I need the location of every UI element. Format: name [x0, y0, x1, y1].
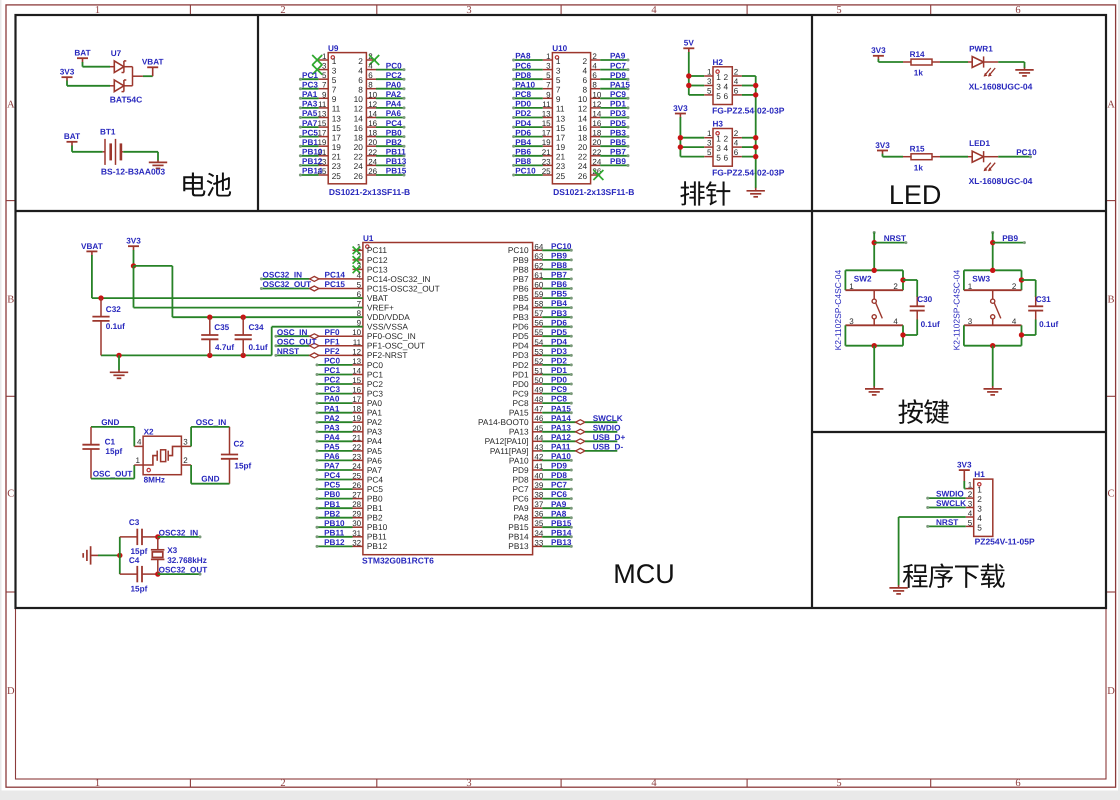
pin 1 U10 — [543, 59, 553, 61]
svg-text:DS1021-2x13SF11-B: DS1021-2x13SF11-B — [329, 187, 410, 197]
svg-text:B: B — [1107, 294, 1114, 305]
svg-text:11: 11 — [556, 104, 565, 114]
svg-text:PB10: PB10 — [302, 148, 323, 157]
pin 14 U9 — [366, 117, 376, 119]
svg-text:BAT: BAT — [64, 132, 80, 141]
pin 13 U10 — [543, 117, 553, 119]
wire net PA7 — [317, 469, 353, 471]
U1 pin 38 — [533, 498, 543, 500]
svg-text:5: 5 — [836, 778, 841, 789]
wire net PA15 — [542, 412, 571, 414]
U1 pin 40 — [533, 479, 543, 481]
svg-text:5: 5 — [707, 86, 712, 95]
wire net PC5 — [317, 488, 353, 490]
svg-text:PB5: PB5 — [513, 293, 529, 303]
svg-text:C: C — [1107, 488, 1114, 499]
wire net PC4 — [376, 126, 404, 128]
svg-text:PA0: PA0 — [386, 80, 402, 89]
wire VBAT to pin6 — [91, 255, 93, 298]
ground — [755, 188, 757, 191]
svg-text:PC4: PC4 — [324, 471, 340, 480]
MCU U1 STM32G0B1RCT6 — [363, 243, 533, 555]
svg-text:PA12[PA10]: PA12[PA10] — [485, 436, 529, 446]
H3 right wires — [742, 137, 756, 139]
wire net OSC32_IN — [158, 536, 200, 538]
wire OSC_IN (X2 right top) — [190, 427, 192, 447]
wire net PB2 — [317, 517, 353, 519]
svg-text:PB6: PB6 — [515, 148, 531, 157]
wire net PD9 — [600, 78, 628, 80]
svg-text:11: 11 — [542, 100, 551, 109]
U1 pin 13 — [353, 364, 363, 366]
U1 pin 42 — [533, 459, 543, 461]
svg-text:PA15: PA15 — [610, 80, 630, 89]
svg-text:PA10: PA10 — [551, 452, 571, 461]
U1 pin 32 — [353, 545, 363, 547]
svg-text:PC2: PC2 — [367, 379, 384, 389]
pin 2 U10 — [591, 59, 601, 61]
H2 right wires — [742, 75, 756, 77]
svg-text:PB0: PB0 — [324, 490, 340, 499]
wire net PA1 — [300, 97, 318, 99]
wire net SWCLK — [928, 507, 966, 509]
resistor R15 1k — [903, 156, 911, 158]
svg-text:PC14-OSC32_IN: PC14-OSC32_IN — [367, 274, 431, 284]
svg-text:VREF+: VREF+ — [367, 303, 394, 313]
svg-text:PF1-OSC_OUT: PF1-OSC_OUT — [367, 341, 425, 351]
svg-text:3: 3 — [183, 438, 188, 447]
pin 25 U10 — [543, 174, 553, 176]
svg-text:PC0: PC0 — [324, 357, 340, 366]
svg-text:15: 15 — [542, 119, 551, 128]
svg-text:3: 3 — [716, 143, 721, 153]
U1 pin 28 — [353, 507, 363, 509]
wire net PB9 — [542, 259, 571, 261]
svg-text:19: 19 — [542, 138, 551, 147]
svg-text:PB3: PB3 — [513, 312, 529, 322]
switch SW2 K2-1102SP-C4SC-04 — [873, 231, 876, 234]
svg-text:25: 25 — [542, 167, 551, 176]
svg-text:PC6: PC6 — [512, 494, 529, 504]
wire net PD1 — [542, 374, 571, 376]
svg-text:4: 4 — [368, 62, 373, 71]
wire net PD5 — [600, 126, 628, 128]
svg-text:PC1: PC1 — [302, 71, 318, 80]
wire net PB13 — [542, 545, 571, 547]
svg-text:7: 7 — [322, 81, 327, 90]
wire net PD3 — [542, 354, 571, 356]
wire net PB13 — [376, 164, 404, 166]
svg-text:8: 8 — [582, 85, 587, 95]
wire net SWDIO — [542, 431, 576, 433]
svg-text:13: 13 — [556, 113, 566, 123]
svg-text:21: 21 — [332, 152, 342, 162]
capacitor C35 4.7uf — [209, 317, 211, 334]
svg-text:6: 6 — [582, 75, 587, 85]
svg-text:PC5: PC5 — [302, 128, 318, 137]
pin 6 U9 — [366, 78, 376, 80]
svg-text:1: 1 — [716, 72, 721, 82]
svg-text:18: 18 — [578, 132, 588, 142]
svg-text:PB8: PB8 — [515, 157, 531, 166]
svg-text:3: 3 — [707, 139, 712, 148]
svg-text:15pf: 15pf — [105, 447, 122, 456]
svg-text:PD9: PD9 — [512, 465, 529, 475]
svg-text:17: 17 — [317, 129, 326, 138]
pin 13 U9 — [319, 117, 329, 119]
svg-text:4: 4 — [734, 77, 739, 86]
wire net PA3 — [300, 107, 318, 109]
svg-text:PC9: PC9 — [512, 388, 529, 398]
svg-text:PB12: PB12 — [367, 541, 388, 551]
svg-text:10: 10 — [578, 94, 588, 104]
power flag 3V3 (R14) — [873, 55, 884, 57]
U1 pin 8 — [353, 316, 363, 318]
svg-text:OSC_IN: OSC_IN — [196, 418, 227, 427]
svg-text:2: 2 — [280, 778, 285, 789]
wire net PC5 — [300, 136, 318, 138]
pin 4 H2 — [732, 85, 742, 87]
svg-text:PA4: PA4 — [324, 433, 340, 442]
svg-text:PD5: PD5 — [512, 331, 529, 341]
svg-text:6: 6 — [358, 75, 363, 85]
svg-text:4: 4 — [651, 778, 657, 789]
svg-text:9: 9 — [332, 94, 337, 104]
svg-text:PB11: PB11 — [367, 532, 387, 542]
pin 4 U10 — [591, 69, 601, 71]
wire net NRST — [928, 525, 966, 527]
svg-text:PB14: PB14 — [551, 528, 572, 537]
ground — [157, 160, 159, 162]
wire net PD4 — [514, 126, 543, 128]
svg-text:GND: GND — [201, 475, 219, 484]
svg-text:NRST: NRST — [277, 347, 299, 356]
pin 21 U9 — [319, 155, 329, 157]
svg-text:4: 4 — [734, 139, 739, 148]
svg-text:19: 19 — [317, 138, 326, 147]
svg-text:19: 19 — [556, 142, 566, 152]
wire net PB5 — [600, 145, 628, 147]
svg-text:PA2: PA2 — [324, 414, 340, 423]
wire net PD2 — [542, 364, 571, 366]
pin 23 U9 — [319, 164, 329, 166]
svg-text:C30: C30 — [917, 295, 932, 304]
svg-text:PD1: PD1 — [512, 369, 529, 379]
svg-text:PC8: PC8 — [551, 395, 567, 404]
svg-text:VBAT: VBAT — [367, 293, 388, 303]
svg-text:PA10: PA10 — [509, 455, 529, 465]
junctions on GND row — [116, 353, 121, 358]
svg-text:21: 21 — [542, 148, 551, 157]
pin 18 U10 — [591, 136, 601, 138]
svg-text:PB8: PB8 — [513, 264, 529, 274]
svg-text:PC4: PC4 — [386, 119, 402, 128]
svg-text:27: 27 — [352, 491, 361, 500]
svg-text:STM32G0B1RCT6: STM32G0B1RCT6 — [362, 555, 434, 565]
wire net PB15 — [376, 174, 404, 176]
svg-text:4: 4 — [357, 271, 362, 280]
pin 5 U9 — [319, 78, 329, 80]
svg-text:PF2: PF2 — [325, 347, 340, 356]
wire net PB11 — [317, 536, 353, 538]
svg-text:30: 30 — [352, 519, 361, 528]
svg-text:PD9: PD9 — [610, 71, 626, 80]
wire net PB1 — [300, 145, 318, 147]
U1 pin 47 — [533, 412, 543, 414]
wire net PA10 — [514, 88, 543, 90]
svg-text:17: 17 — [332, 132, 342, 142]
svg-text:23: 23 — [556, 161, 566, 171]
svg-text:PD0: PD0 — [512, 379, 529, 389]
wire net PB15 — [542, 526, 571, 528]
U1 pin 39 — [533, 488, 543, 490]
wire net SWDIO — [928, 497, 966, 499]
svg-text:PF1: PF1 — [325, 337, 340, 346]
section label program download — [903, 564, 928, 588]
U1 pin 31 — [353, 536, 363, 538]
svg-text:DS1021-2x13SF11-B: DS1021-2x13SF11-B — [553, 187, 634, 197]
capacitor C34 0.1uf — [242, 317, 244, 334]
wire net PB4 — [542, 307, 571, 309]
pin 19 U9 — [319, 145, 329, 147]
svg-text:PB1: PB1 — [324, 500, 340, 509]
U1 pin 19 — [353, 421, 363, 423]
svg-text:PD3: PD3 — [610, 109, 626, 118]
svg-text:4: 4 — [1012, 317, 1017, 326]
wire net PC0 — [317, 364, 353, 366]
svg-text:OSC_OUT: OSC_OUT — [93, 470, 133, 479]
wire net PB1 — [317, 507, 353, 509]
svg-text:PB9: PB9 — [513, 255, 529, 265]
svg-text:2: 2 — [582, 56, 587, 66]
pin 4 H3 — [732, 146, 742, 148]
svg-text:PF2-NRST: PF2-NRST — [367, 350, 408, 360]
wire net PA4 — [317, 440, 353, 442]
U1 pin 24 — [353, 469, 363, 471]
svg-text:15pf: 15pf — [131, 547, 148, 556]
svg-text:5: 5 — [716, 153, 721, 163]
svg-text:4: 4 — [893, 317, 898, 326]
U1 pin 16 — [353, 393, 363, 395]
U1 pin 23 — [353, 459, 363, 461]
U1 pin 41 — [533, 469, 543, 471]
pin 1 H3 — [704, 137, 713, 139]
wire to switch pins 1,2 — [845, 269, 903, 271]
capacitor C32 0.1uf — [100, 298, 102, 316]
wire net PB5 — [542, 297, 571, 299]
svg-text:PA2: PA2 — [367, 417, 382, 427]
svg-text:PA0: PA0 — [324, 395, 340, 404]
pin 15 U9 — [319, 126, 329, 128]
svg-text:19: 19 — [332, 142, 342, 152]
pin 4 U9 — [366, 69, 376, 71]
wire net PA1 — [317, 412, 353, 414]
svg-text:3V3: 3V3 — [875, 141, 890, 150]
svg-text:10: 10 — [354, 94, 364, 104]
wire net NRST — [276, 354, 310, 356]
svg-text:17: 17 — [556, 132, 566, 142]
right ground bus — [755, 76, 757, 188]
svg-text:15: 15 — [556, 123, 566, 133]
svg-text:14: 14 — [354, 113, 364, 123]
wire net PC9 — [542, 393, 571, 395]
pin 16 U10 — [591, 126, 601, 128]
svg-text:9: 9 — [546, 90, 551, 99]
svg-text:PD4: PD4 — [515, 119, 531, 128]
svg-text:6: 6 — [368, 71, 373, 80]
no-connect — [312, 65, 322, 75]
svg-text:PB15: PB15 — [386, 167, 407, 176]
power flag 5V — [683, 47, 694, 49]
svg-text:NRST: NRST — [884, 234, 906, 243]
svg-text:23: 23 — [352, 452, 361, 461]
wire to ground — [872, 343, 877, 348]
svg-text:U10: U10 — [552, 44, 567, 53]
wire — [66, 81, 68, 86]
svg-text:6: 6 — [723, 153, 728, 163]
wire net PA9 — [542, 507, 571, 509]
wire bus — [119, 537, 121, 574]
wire net OSC32_OUT — [158, 573, 200, 575]
svg-text:7: 7 — [546, 81, 551, 90]
svg-text:1: 1 — [707, 68, 712, 77]
svg-text:PA5: PA5 — [324, 443, 340, 452]
section label paizhen — [680, 181, 704, 205]
svg-text:K2-1102SP-C4SC-04: K2-1102SP-C4SC-04 — [952, 269, 962, 350]
svg-text:PB11: PB11 — [386, 148, 406, 157]
svg-text:PC9: PC9 — [610, 90, 626, 99]
svg-text:C31: C31 — [1036, 295, 1051, 304]
svg-text:PF0-OSC_IN: PF0-OSC_IN — [367, 331, 416, 341]
U1 pin 22 — [353, 450, 363, 452]
svg-text:BAT54C: BAT54C — [110, 94, 142, 104]
svg-text:24: 24 — [578, 161, 588, 171]
svg-text:3: 3 — [546, 62, 551, 71]
svg-text:PC10: PC10 — [508, 245, 529, 255]
wire net PD3 — [600, 117, 628, 119]
wire net PA6 — [317, 459, 353, 461]
svg-text:3V3: 3V3 — [60, 68, 75, 77]
svg-text:PD8: PD8 — [515, 71, 531, 80]
svg-text:2: 2 — [968, 490, 973, 499]
wire net SWCLK — [542, 421, 576, 423]
svg-text:PB9: PB9 — [1002, 234, 1018, 243]
svg-text:PC9: PC9 — [551, 385, 567, 394]
svg-text:15: 15 — [352, 376, 361, 385]
LED PWR1 — [968, 61, 972, 63]
wire net PC6 — [542, 498, 571, 500]
wire net PC7 — [600, 69, 628, 71]
capacitor C2 15pf — [229, 427, 231, 454]
svg-text:BAT: BAT — [74, 49, 90, 58]
svg-text:3V3: 3V3 — [673, 104, 688, 113]
U1 pin 14 — [353, 374, 363, 376]
wire net PA9 — [600, 59, 628, 61]
header H3 — [713, 129, 732, 167]
svg-text:PA4: PA4 — [367, 436, 382, 446]
svg-text:1: 1 — [968, 481, 973, 490]
svg-text:PB4: PB4 — [515, 138, 531, 147]
svg-text:PC10: PC10 — [515, 167, 536, 176]
wire net PB0 — [376, 136, 404, 138]
svg-text:PC4: PC4 — [367, 474, 384, 484]
svg-text:16: 16 — [354, 123, 364, 133]
switch mechanism — [873, 290, 875, 299]
svg-text:6: 6 — [1015, 778, 1020, 789]
svg-text:3: 3 — [707, 77, 712, 86]
svg-text:PA1: PA1 — [324, 404, 340, 413]
wire net USB_D- — [542, 450, 576, 452]
U1 pin 7 — [353, 307, 363, 309]
wire GND (X2 left top) — [91, 426, 134, 428]
ground — [992, 386, 994, 389]
svg-text:C4: C4 — [129, 556, 140, 565]
svg-text:LED1: LED1 — [969, 139, 990, 148]
power flag 3V3 — [62, 76, 73, 78]
wire net PD8 — [542, 479, 571, 481]
U1 pin 48 — [533, 402, 543, 404]
svg-text:5: 5 — [322, 71, 327, 80]
pin 9 U9 — [319, 97, 329, 99]
svg-text:H1: H1 — [974, 470, 985, 479]
wire net PD0 — [542, 383, 571, 385]
svg-text:PB7: PB7 — [610, 148, 626, 157]
U1 pin 49 — [533, 393, 543, 395]
U1 pin 18 — [353, 412, 363, 414]
wire net PB7 — [542, 278, 571, 280]
svg-text:15pf: 15pf — [131, 584, 148, 593]
pin 3 H2 — [704, 85, 713, 87]
svg-text:6: 6 — [723, 91, 728, 101]
svg-text:PC5: PC5 — [324, 481, 340, 490]
svg-text:SWCLK: SWCLK — [936, 499, 966, 508]
U1 pin 57 — [533, 316, 543, 318]
svg-text:SWDIO: SWDIO — [593, 423, 621, 432]
svg-text:8: 8 — [358, 85, 363, 95]
svg-text:PC10: PC10 — [1016, 148, 1037, 157]
switch top contact bar — [845, 289, 903, 291]
svg-text:7: 7 — [332, 85, 337, 95]
svg-text:PA3: PA3 — [367, 427, 382, 437]
wire net PD0 — [514, 107, 543, 109]
svg-text:14: 14 — [578, 113, 588, 123]
svg-text:PB0: PB0 — [367, 494, 383, 504]
U1 pin 36 — [533, 517, 543, 519]
pin 16 U9 — [366, 126, 376, 128]
U1 pin 17 — [353, 402, 363, 404]
svg-text:19: 19 — [352, 414, 361, 423]
svg-text:20: 20 — [354, 142, 364, 152]
U1 pin 52 — [533, 364, 543, 366]
svg-text:13: 13 — [317, 110, 326, 119]
net port diamond — [576, 439, 585, 444]
svg-text:8: 8 — [592, 81, 597, 90]
svg-text:5: 5 — [716, 91, 721, 101]
svg-text:PB9: PB9 — [610, 157, 626, 166]
wire net PB10 — [300, 155, 318, 157]
svg-text:PA8: PA8 — [551, 509, 567, 518]
wire pin4 to ground — [899, 516, 966, 518]
pin 26 U9 — [366, 174, 376, 176]
net port diamond — [310, 353, 319, 358]
wire — [82, 62, 84, 67]
svg-text:PA14: PA14 — [551, 414, 571, 423]
svg-text:26: 26 — [354, 171, 364, 181]
U1 pin 9 — [353, 326, 363, 328]
wire net PB3 — [542, 316, 571, 318]
svg-text:1: 1 — [968, 282, 973, 291]
svg-text:26: 26 — [578, 171, 588, 181]
